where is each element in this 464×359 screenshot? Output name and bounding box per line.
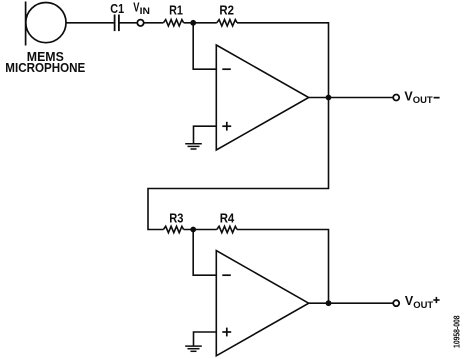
junction node B bbox=[190, 227, 196, 233]
feedback wire R4 to U2 output bbox=[237, 230, 329, 304]
svg-text:R4: R4 bbox=[220, 210, 235, 225]
node VIN terminal bbox=[137, 20, 143, 26]
wire R3 to junction B bbox=[184, 229, 217, 231]
wire U1 output to VOUT- terminal bbox=[309, 97, 394, 99]
svg-text:R1: R1 bbox=[169, 2, 183, 17]
resistor R1 bbox=[163, 20, 183, 26]
wire U2 output to VOUT+ terminal bbox=[309, 302, 394, 304]
svg-text:C1: C1 bbox=[110, 1, 124, 16]
wire mic to C1 bbox=[66, 22, 114, 24]
label VIN bbox=[133, 0, 150, 17]
svg-text:IN: IN bbox=[140, 6, 150, 17]
U1 plus input sign bbox=[222, 122, 231, 131]
label VOUT+ bbox=[405, 293, 440, 311]
node VOUT+ terminal bbox=[393, 300, 399, 306]
capacitor C1 bbox=[115, 15, 119, 32]
wire U2 non-inverting input to ground bbox=[194, 332, 217, 346]
U2 plus input sign bbox=[222, 328, 231, 337]
junction node U1 output bbox=[326, 95, 332, 101]
resistor R4 bbox=[217, 226, 237, 232]
svg-text:V: V bbox=[404, 88, 413, 103]
op-amp U1 bbox=[216, 45, 308, 150]
svg-text:R2: R2 bbox=[219, 2, 234, 17]
junction node U2 output bbox=[326, 300, 332, 306]
svg-text:V: V bbox=[405, 293, 414, 308]
resistor R3 bbox=[163, 226, 183, 232]
svg-text:OUT: OUT bbox=[413, 95, 433, 106]
wire node B to U2 inverting input bbox=[193, 230, 216, 276]
interstage wire U1 output to R3 bbox=[148, 98, 329, 230]
svg-text:R3: R3 bbox=[169, 210, 183, 225]
U2 minus input sign bbox=[222, 274, 231, 276]
svg-text:MICROPHONE: MICROPHONE bbox=[5, 60, 85, 75]
U1 minus input sign bbox=[222, 68, 231, 70]
label MEMS MICROPHONE bbox=[5, 49, 85, 75]
node VOUT- terminal bbox=[393, 95, 399, 101]
junction node A bbox=[190, 20, 196, 26]
svg-text:OUT: OUT bbox=[413, 300, 433, 311]
ground GND1 bbox=[185, 144, 202, 149]
resistor R2 bbox=[217, 20, 237, 26]
MEMS microphone MIC1 bbox=[26, 2, 66, 46]
label VOUT- bbox=[404, 88, 439, 106]
wire VIN to R1 bbox=[144, 22, 164, 24]
op-amp U2 bbox=[216, 251, 308, 356]
wire node A to U1 inverting input bbox=[193, 23, 216, 69]
feedback wire R2 to U1 output bbox=[237, 23, 329, 98]
ground GND2 bbox=[185, 346, 202, 351]
wire R1 to junction bbox=[184, 22, 217, 24]
wire C1 to VIN bbox=[119, 22, 137, 24]
svg-text:10958-008: 10958-008 bbox=[451, 315, 461, 348]
wire U1 non-inverting input to ground bbox=[194, 126, 217, 143]
